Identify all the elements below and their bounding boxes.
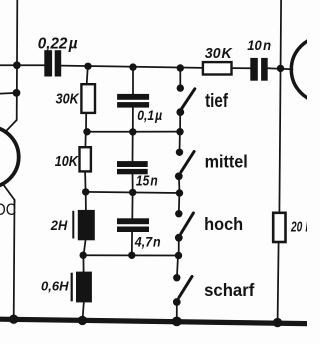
inductor L2 0,6H winding [76,272,92,303]
switch S2 contacts [176,149,183,156]
wire: rail2 to S2 upper contact [179,132,181,153]
node: T1 base junction [13,89,21,97]
inductor L1 2H winding [78,210,95,240]
resistor R3 30K horizontal [203,62,232,74]
wire: middle column rail1 to C2 [132,67,134,94]
wire: left vertical from top edge down to base junction [16,0,19,120]
wire: 20K to bottom rail [278,242,279,321]
wire: stub to left edge at base junction [0,92,17,95]
node: rail2 junction dots [83,128,90,135]
inductor L1 core line [72,211,74,239]
wire: L1 to rail4 [84,240,86,255]
transistor T2 (top right, cut off) [291,37,320,103]
capacitor C3 15n plates [117,161,148,167]
svg-text:tief: tief [205,89,228,111]
svg-text:0,6H: 0,6H [41,278,69,293]
node: rail1 junction dots [13,61,21,69]
switch S4 contacts [173,274,180,281]
wire: rail4 to L2 [82,255,84,271]
wire: C4 to rail4 [131,232,133,255]
switch S4 lever [179,276,192,297]
wire: rail2 to R2 [84,132,86,147]
wire: rail4 [82,254,180,256]
wire: rail3 to S3 upper contact [178,193,181,214]
wire: R2 to rail3 [84,171,87,192]
switch S2 lever [181,152,194,172]
svg-text:30K: 30K [56,90,80,107]
svg-text:30K: 30K [205,46,233,62]
svg-text:scharf: scharf [204,280,254,301]
node: rail4 junction dots [80,252,87,259]
switch S3 contacts [175,210,182,217]
resistor R2 10K vertical [80,147,91,171]
svg-text:15n: 15n [136,172,158,189]
wire: C3 to rail3 [132,174,134,192]
wire: diagonal emitter lead out of T1 [3,184,15,204]
wire: L2 to bottom rail [83,302,84,320]
switch S3 lever [181,213,193,233]
wire: right vertical from top edge to 20K [279,0,281,213]
svg-text:20K: 20K [290,219,307,235]
wire: rail2 to C3 [132,132,134,161]
wire: diagonal collector lead into T1 [5,120,17,133]
wire: S3 lower contact to rail4 [178,238,180,256]
wire: S1 lower contact to rail2 [179,112,181,132]
wire: rail3 [84,192,180,193]
wire: C2 to rail2 [132,107,134,131]
wire: S2 lower contact to rail3 [178,176,181,193]
switch S1 contacts [177,84,184,91]
svg-text:OC: OC [0,201,16,219]
wire: top rail R3 box to C5 [232,67,251,69]
svg-text:2H: 2H [50,217,68,233]
node: rail3 junction dots [82,188,89,195]
wire: R1 to rail2 [85,113,87,132]
capacitor C4 4,7n plates [117,218,149,224]
svg-text:0,1µ: 0,1µ [137,107,162,123]
wire: left column rail1 to R1 [87,66,88,84]
wire: S4 lower contact to bottom rail [176,302,178,321]
transistor T1 (left, cut off) [0,127,19,188]
wire: rail3 to L1 [85,192,87,210]
node: bottom rail junction dots [9,315,18,324]
capacitor C5 10n plates [250,58,257,81]
svg-text:10K: 10K [55,152,79,169]
inductor L2 core line [71,273,73,302]
wire: bottom thick rail [0,319,307,323]
wire: switch S1 stub from rail1 [179,68,181,88]
wire: emitter vertical down to bottom rail [13,200,16,319]
capacitor C1 0,22u plates [44,50,52,76]
wire: top rail C5 to transistor T2 [268,68,293,69]
wire: rail4 to S4 upper contact [177,256,178,278]
resistor R1 30K vertical [81,84,95,113]
wire: rail3 to C4 [131,192,133,218]
capacitor C2 0,1u plates [117,94,149,100]
resistor R4 20K vertical [273,213,285,242]
svg-text:hoch: hoch [204,213,243,234]
wire: rail2 [86,131,181,133]
svg-text:4,7n: 4,7n [134,234,161,250]
wire: top rail segment left edge to C1 [0,64,45,66]
switch S1 lever [182,89,195,109]
wire: top rail C1 to R3 box [61,66,203,68]
svg-text:mittel: mittel [205,152,248,172]
svg-text:10n: 10n [247,37,271,53]
svg-text:0,22µ: 0,22µ [38,35,78,52]
